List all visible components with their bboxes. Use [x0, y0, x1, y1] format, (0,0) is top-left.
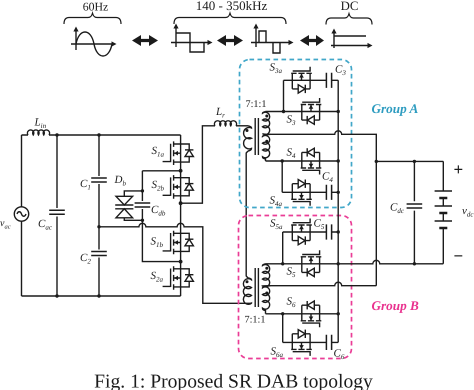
- svg-text:Fig. 1: Proposed SR DAB topolo: Fig. 1: Proposed SR DAB topology: [94, 372, 373, 390]
- svg-text:7:1:1: 7:1:1: [246, 99, 267, 110]
- svg-text:Group A: Group A: [372, 101, 419, 116]
- svg-text:140 - 350kHz: 140 - 350kHz: [196, 0, 268, 13]
- svg-text:+: +: [454, 160, 464, 179]
- svg-text:DC: DC: [341, 0, 359, 13]
- svg-text:−: −: [454, 247, 464, 266]
- svg-text:7:1:1: 7:1:1: [245, 315, 266, 326]
- svg-text:60Hz: 60Hz: [83, 0, 109, 14]
- svg-text:Group B: Group B: [372, 298, 419, 313]
